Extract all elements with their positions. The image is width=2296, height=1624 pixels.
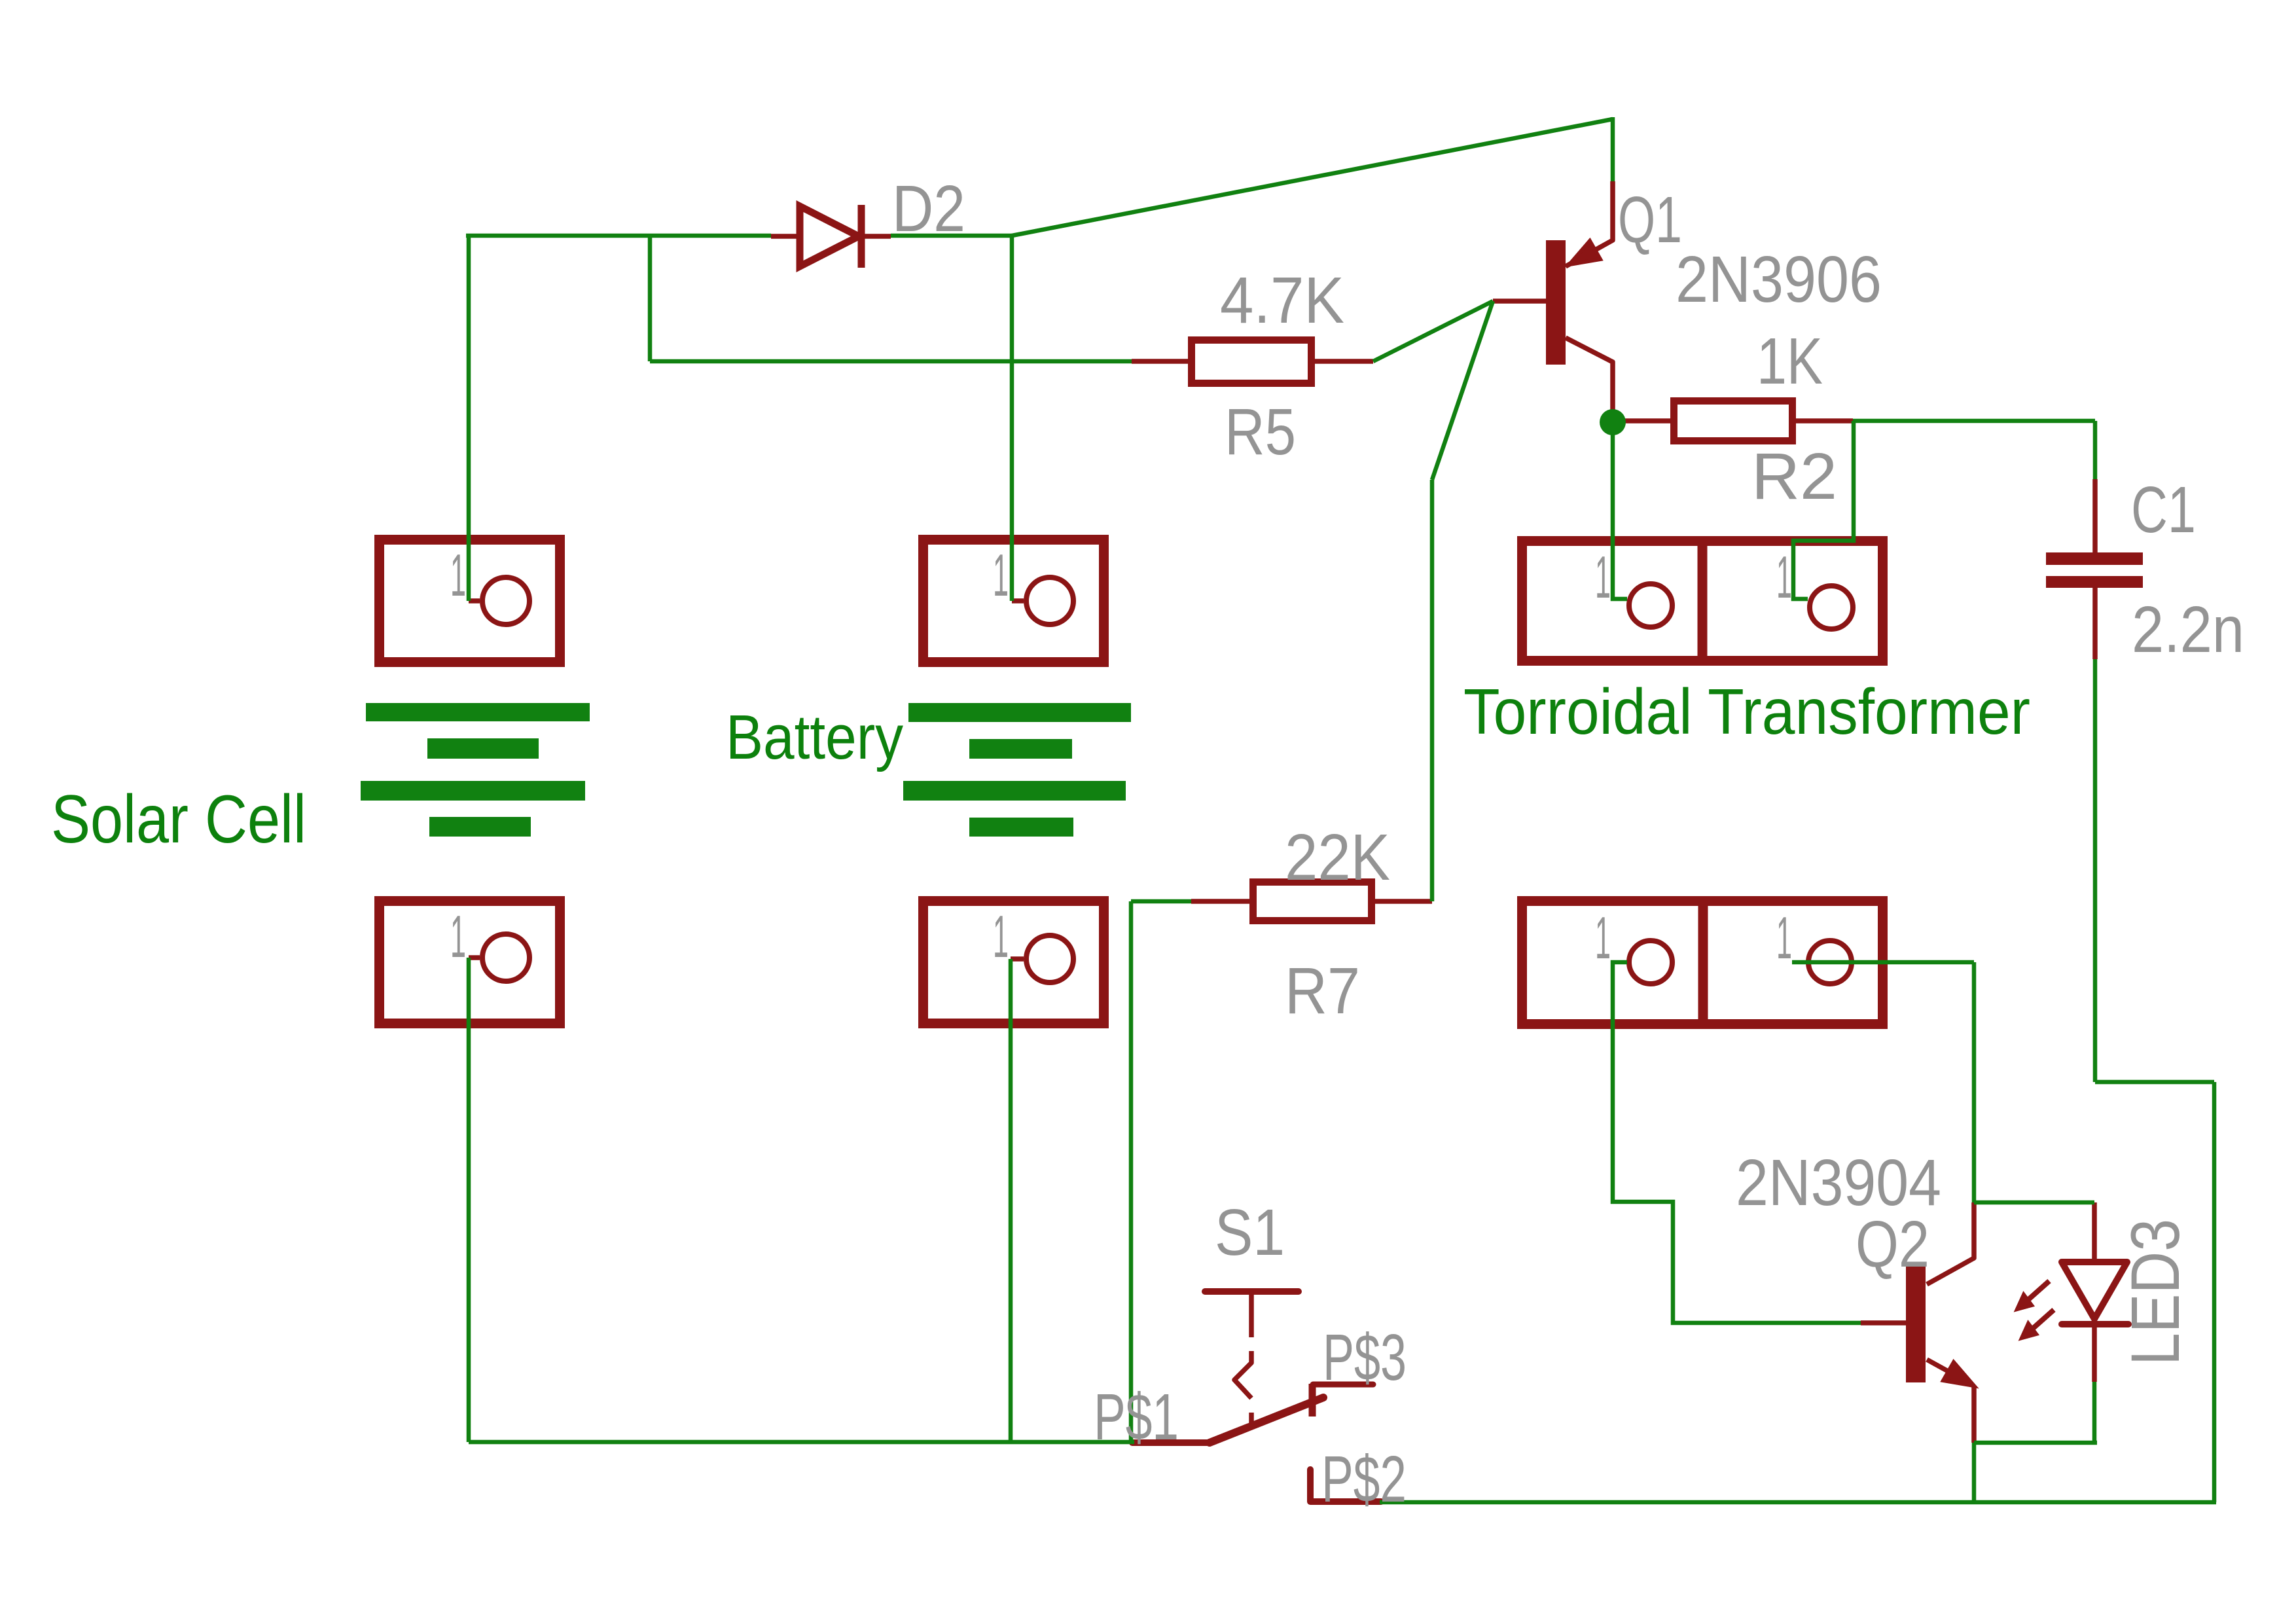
label 22K (R7 value)	[1285, 821, 1390, 894]
wire right rail down	[2212, 1082, 2217, 1502]
svg-text:C1: C1	[2131, 473, 2196, 547]
wire R5 to Q1 base (diagonal)	[1373, 301, 1493, 361]
svg-text:1: 1	[450, 543, 466, 609]
wire battery- down	[1009, 959, 1013, 1442]
diode D2	[771, 205, 891, 268]
label R2	[1751, 440, 1837, 513]
svg-text:1: 1	[450, 904, 466, 970]
transformer torroidal bottom pair	[1522, 899, 1883, 1026]
connector solar cell pin bottom	[380, 901, 560, 1024]
terminal P$2	[1310, 1470, 1381, 1502]
wire node to Q1 collector (diagonal)	[1012, 119, 1613, 236]
wire node to battery+	[1010, 236, 1014, 601]
wire C1 bottom	[2093, 659, 2098, 1082]
label 2N3904 (Q2 value)	[1736, 1146, 1941, 1219]
junction dot	[1600, 409, 1626, 435]
transistor Q2 2N3904	[1861, 1202, 1974, 1443]
resistor R7	[1131, 882, 1432, 921]
transformer torroidal top pair	[1522, 539, 1883, 662]
svg-text:Q2: Q2	[1856, 1208, 1929, 1281]
svg-text:S1: S1	[1215, 1196, 1285, 1269]
pin 1 label transformer top-right	[1776, 545, 1792, 611]
connector battery pin top	[924, 540, 1104, 662]
wire Q1 base to R7 column (diagonal)	[1432, 301, 1493, 480]
label 2N3906 (Q1 value)	[1676, 243, 1882, 316]
wire solar- down	[467, 958, 471, 1442]
wire transformer BL pin to Q2 base	[1613, 962, 1861, 1323]
label R7	[1285, 954, 1360, 1028]
svg-text:R7: R7	[1285, 954, 1360, 1028]
transistor Q1 2N3906	[1493, 181, 1613, 412]
label 2.2n (C1 value)	[2132, 593, 2244, 666]
pin 1 label transformer top-left	[1595, 545, 1611, 611]
svg-text:D2: D2	[892, 172, 965, 245]
pin 1 label transformer bottom-right	[1776, 905, 1792, 971]
svg-text:LED3: LED3	[2117, 1219, 2194, 1365]
wire Q1 collector top	[1611, 117, 1615, 181]
label P$3	[1323, 1321, 1407, 1394]
capacitor C1	[2046, 479, 2143, 659]
resistor R2	[1622, 401, 1853, 441]
wire R2 corner to transformer pin TR	[1793, 421, 1854, 599]
wire bottom left rail	[469, 1440, 1134, 1445]
solar cell battery plates	[361, 703, 590, 837]
svg-text:R2: R2	[1751, 440, 1837, 513]
wire D2 cathode to node	[891, 234, 1012, 238]
label Solar Cell	[51, 782, 306, 857]
label 1K (R2 value)	[1757, 325, 1823, 398]
label R5	[1225, 395, 1296, 469]
svg-text:Solar Cell: Solar Cell	[51, 782, 306, 857]
LED3 light arrows	[2017, 1281, 2054, 1338]
svg-text:P$2: P$2	[1321, 1443, 1407, 1516]
resistor R5	[1132, 340, 1373, 384]
label P$1	[1094, 1380, 1179, 1454]
connector battery pin bottom	[924, 901, 1104, 1024]
wire solar+ vertical	[467, 236, 471, 601]
LED LED3	[2062, 1202, 2128, 1382]
label Torroidal Transformer	[1463, 676, 2030, 748]
wire R7 to bottom rail	[1129, 901, 1134, 1442]
label LED3 (rotated)	[2117, 1219, 2194, 1365]
wire column to R7	[1430, 480, 1435, 901]
label Q2	[1856, 1208, 1929, 1281]
pin 1 label battery bottom	[993, 904, 1009, 970]
label 4.7K (R5 value)	[1220, 264, 1344, 337]
wire C1 to right rail	[2095, 1080, 2214, 1085]
wire LED cathode down	[2092, 1382, 2097, 1443]
wire solar+ to D2 anode	[466, 234, 771, 238]
svg-text:1: 1	[1776, 545, 1792, 611]
wire bottom rail	[1380, 1500, 2216, 1505]
svg-text:22K: 22K	[1285, 821, 1390, 894]
svg-text:1K: 1K	[1757, 325, 1823, 398]
svg-text:2N3906: 2N3906	[1676, 243, 1882, 316]
label P$2	[1321, 1443, 1407, 1516]
svg-text:1: 1	[1776, 905, 1792, 971]
svg-text:Q1: Q1	[1618, 183, 1682, 257]
svg-text:4.7K: 4.7K	[1220, 264, 1344, 337]
label D2	[892, 172, 965, 245]
pin 1 label solar bottom	[450, 904, 466, 970]
svg-text:Torroidal Transformer: Torroidal Transformer	[1463, 676, 2030, 748]
battery plates	[903, 703, 1131, 837]
svg-text:P$3: P$3	[1323, 1321, 1407, 1394]
svg-text:2.2n: 2.2n	[2132, 593, 2244, 666]
svg-text:1: 1	[1595, 545, 1611, 611]
connector solar cell pin top	[380, 540, 560, 662]
svg-text:Battery: Battery	[726, 702, 903, 772]
svg-text:R5: R5	[1225, 395, 1296, 469]
label Q1	[1618, 183, 1682, 257]
svg-text:1: 1	[1595, 905, 1611, 971]
wire R2 to C1	[1853, 419, 2095, 424]
label S1	[1215, 1196, 1285, 1269]
wire to R5 left	[650, 359, 1132, 364]
label C1	[2131, 473, 2196, 547]
label Battery	[726, 702, 903, 772]
pin 1 label solar top	[450, 543, 466, 609]
wire Q2 collector column	[1972, 962, 1977, 1202]
pin 1 label battery top	[993, 543, 1009, 609]
switch S1	[1132, 1291, 1373, 1443]
wire Q1 emitter to transformer TL pin	[1613, 422, 1627, 599]
wire Q2 collector to LED anode	[1974, 1200, 2094, 1205]
svg-text:P$1: P$1	[1094, 1380, 1179, 1454]
wire Q2 emitter to bottom rail	[1972, 1443, 1977, 1502]
wire junction drop	[648, 234, 653, 361]
wire C1 top lead green	[2093, 421, 2098, 479]
svg-text:1: 1	[993, 543, 1009, 609]
wire Q2 emitter junction horizontal	[1974, 1441, 2097, 1445]
pin 1 label transformer bottom-left	[1595, 905, 1611, 971]
wire transformer BR pin to Q2 collector	[1792, 960, 1974, 965]
svg-text:1: 1	[993, 904, 1009, 970]
